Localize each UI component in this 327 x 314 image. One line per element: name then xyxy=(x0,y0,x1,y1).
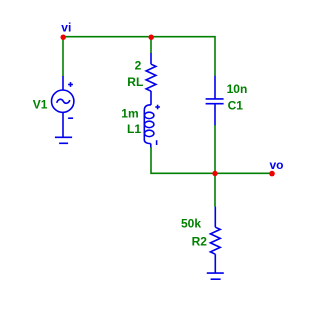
svg-text:vo: vo xyxy=(270,158,284,172)
resistor RL xyxy=(146,53,156,105)
junction dot bottom rail xyxy=(212,171,217,176)
node dot vi xyxy=(61,35,66,40)
inductor L1 xyxy=(144,105,160,148)
capacitor C1 xyxy=(206,76,224,126)
svg-text:2: 2 xyxy=(135,59,142,73)
ground below R2 xyxy=(207,273,224,279)
junction dot RL top xyxy=(149,35,154,40)
node dot vo xyxy=(269,171,275,177)
wire top horizontal vi to cap corner xyxy=(63,37,215,76)
wire top junction down to RL xyxy=(150,37,152,54)
wire vi down to V1 xyxy=(62,37,64,77)
svg-text:10n: 10n xyxy=(227,82,248,96)
svg-text:V1: V1 xyxy=(33,97,48,111)
ground below V1 xyxy=(55,137,72,143)
voltage source V1 xyxy=(52,76,74,137)
svg-text:vi: vi xyxy=(61,21,71,35)
resistor R2 xyxy=(210,207,220,274)
svg-text:C1: C1 xyxy=(228,98,244,112)
wire cap bottom through junction to R2 xyxy=(214,125,216,207)
svg-text:R2: R2 xyxy=(192,234,208,248)
svg-text:L1: L1 xyxy=(127,122,141,136)
svg-text:50k: 50k xyxy=(181,217,201,231)
wire L1 bottom to bottom rail xyxy=(151,147,272,173)
svg-text:RL: RL xyxy=(127,75,143,89)
svg-text:1m: 1m xyxy=(121,106,138,120)
